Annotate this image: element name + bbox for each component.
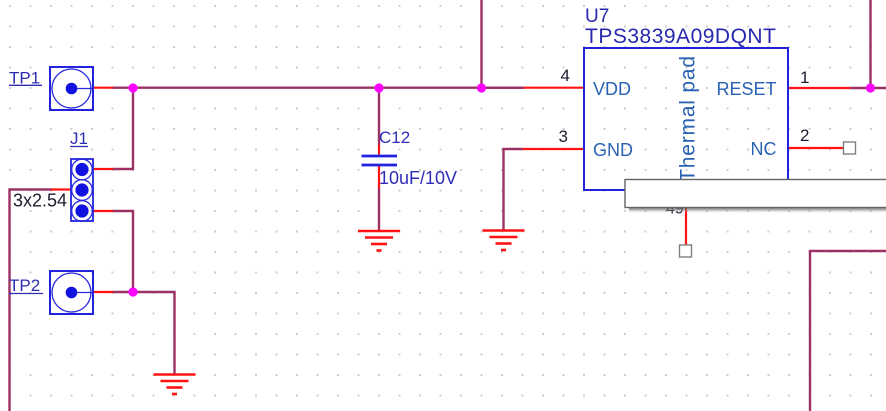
pin lead TP1 — [92, 87, 113, 89]
label J1 — [70, 129, 88, 148]
test point TP2 — [50, 271, 93, 314]
junction node at TP2 — [128, 287, 137, 296]
capacitor C12 — [362, 145, 398, 189]
svg-text:RESET: RESET — [716, 79, 776, 99]
connector J1 — [71, 159, 93, 221]
junction node above C12 — [374, 83, 383, 92]
wire J1 pin3 down to TP2 junction — [113, 211, 134, 292]
wire bottom-right corner net — [810, 251, 886, 411]
pin lead TP2 — [92, 291, 113, 293]
ground symbol below TP2 — [154, 375, 196, 395]
wire J1 pin2 to left rail — [10, 190, 52, 411]
pin lead J1 pin1 — [93, 168, 113, 170]
pin lead U7 thermal pad — [685, 190, 687, 245]
pin lead U7 pin4 VDD — [524, 87, 584, 89]
svg-text:2: 2 — [800, 126, 809, 145]
svg-text:NC: NC — [751, 139, 777, 159]
svg-text:3x2.54: 3x2.54 — [13, 191, 67, 211]
wire C12 top from junction — [378, 88, 380, 145]
label TP1 — [9, 69, 42, 88]
label TP2 — [9, 276, 43, 295]
svg-text:J1: J1 — [70, 129, 88, 148]
pin lead J1 pin3 — [93, 210, 113, 212]
wire vertical drop from top at x=869.5 — [869, 0, 871, 88]
wire net VCC horizontal main — [112, 86, 524, 88]
junction node at RESET net — [866, 83, 875, 92]
IC U7 body — [584, 48, 788, 190]
svg-text:TPS3839A09DQNT: TPS3839A09DQNT — [585, 25, 776, 48]
pin lead J1 pin2 — [51, 188, 71, 190]
test point TP1 — [50, 67, 93, 110]
svg-text:Thermal pad: Thermal pad — [677, 55, 700, 182]
ground symbol below C12 — [358, 231, 400, 251]
no-connect square thermal pad — [680, 245, 692, 257]
wire RESET net at right — [851, 87, 886, 89]
wire TP2 junction right and down to ground — [113, 292, 175, 374]
wire U7 GND pin down to ground — [504, 149, 523, 231]
svg-text:3: 3 — [559, 127, 568, 146]
ground symbol below U7 GND — [483, 231, 525, 251]
wire TP1 junction down to J1 pin1 — [113, 88, 134, 169]
svg-text:GND: GND — [593, 140, 633, 160]
wire vertical drop from top at x=481.5 — [480, 0, 482, 88]
wire C12 bottom to ground — [378, 188, 380, 231]
svg-text:1: 1 — [800, 68, 809, 87]
svg-text:U7: U7 — [585, 6, 609, 27]
pin lead U7 pin1 RESET — [788, 87, 851, 89]
svg-text:TP2: TP2 — [9, 276, 40, 295]
svg-text:VDD: VDD — [593, 79, 631, 99]
svg-text:C12: C12 — [379, 128, 410, 147]
svg-text:10uF/10V: 10uF/10V — [379, 168, 457, 188]
no-connect square U7 pin2 — [844, 142, 856, 154]
junction node at x=481 — [477, 83, 486, 92]
pin lead U7 pin3 GND — [523, 148, 585, 150]
pin lead U7 pin2 NC — [788, 147, 844, 149]
svg-text:4: 4 — [561, 66, 570, 85]
junction node at TP1 — [128, 83, 137, 92]
wire U7 pin4 connection — [482, 86, 525, 88]
popup bar overlay — [625, 180, 886, 213]
